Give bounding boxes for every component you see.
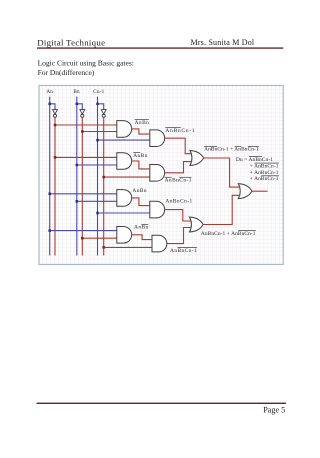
svg-text:AnBnCn-1 + AnBnCn-1: AnBnCn-1 + AnBnCn-1 [201,231,256,237]
wire Bn branch to inverter [77,104,83,110]
wire An rail (direct) [49,97,51,256]
svg-text:AnBnCn-1: AnBnCn-1 [165,128,195,134]
AND gate U7 AnB'n [117,227,132,244]
svg-text:Dn = AnBnCn-1: Dn = AnBnCn-1 [236,157,273,163]
wire AND4 output to OR1 bottom input [165,162,193,173]
svg-text:AnBn: AnBn [134,225,149,231]
wire Cn-1 to AND6 bottom input [98,212,150,214]
junction Cn-1 branch [96,103,99,106]
svg-text:AnBn: AnBn [132,188,147,194]
NOT gate Bn inverter [80,110,85,118]
wire AND8 output to OR2 bottom input [167,228,192,244]
junction Cn-1 feed 1 [96,139,99,142]
junction An feed 2 [48,229,51,232]
wire A'n to AND3 top input [55,156,117,158]
wire B'n to AND1 bottom input [82,131,117,133]
junction B'n feed 1 [81,130,84,133]
wire C'n-1 rail (inverted) [103,118,105,256]
wire A'n rail (inverted) [54,118,56,256]
svg-text:An: An [46,89,53,95]
junction B'n feed 2 [81,237,84,240]
NOT gate Cn-1 inverter [101,110,106,118]
svg-text:Bn: Bn [73,89,80,95]
circuit bounding box with grid [39,86,283,265]
AND gate U1 A'nB'n [117,121,132,138]
wire Bn to AND3 bottom input [77,164,117,166]
svg-text:AnBn: AnBn [133,153,148,159]
AND gate U2 A'nB'nCn-1 [150,130,165,147]
OR gate U10 second OR [190,217,204,232]
svg-text:AnBnCn-1: AnBnCn-1 [170,248,197,254]
wire AND6 output to OR2 top input [165,210,192,221]
wire B'n rail (inverted) [81,118,83,256]
wire An to AND5 top input [50,193,117,195]
junction Bn feed 1 [76,164,79,167]
junction Bn branch [76,103,79,106]
wire Bn rail (direct) [76,97,78,256]
wire Bn to AND5 bottom input [77,200,117,202]
svg-text:+ AnBnCn-1: + AnBnCn-1 [250,176,279,182]
svg-text:AnBnCn-1: AnBnCn-1 [165,178,192,184]
wire C'n-1 to AND8 bottom input [104,246,152,248]
junction An branch [48,103,51,106]
wire Cn-1 to AND2 bottom input [98,139,150,141]
wire OR3 output Dn [252,190,268,192]
junction A'n feed 1 [54,124,57,127]
wire An branch to inverter [50,104,55,110]
svg-text:AnBnCn-1 + AnBnCn-1: AnBnCn-1 + AnBnCn-1 [204,147,259,153]
wire Cn-1 branch to inverter [98,104,104,110]
wire A'n to AND1 top input [55,124,117,126]
AND gate U4 A'nBnC'n-1 [150,165,165,182]
junction C'n-1 feed 2 [102,246,105,249]
junction A'n feed 2 [54,156,57,159]
AND gate U5 AnBn [117,190,132,207]
svg-text:Digital Technique: Digital Technique [37,38,105,48]
svg-text:For Dn(difference): For Dn(difference) [38,68,95,77]
svg-text:+ AnBnCn-1: + AnBnCn-1 [250,170,279,176]
svg-text:AnBn: AnBn [135,120,150,126]
svg-text:Page 5: Page 5 [263,405,285,414]
OR gate U9 first OR [190,151,204,166]
wire AND1 output to AND2 top input [132,129,150,134]
wire AND7 output to AND8 top input [132,235,152,240]
junction C'n-1 feed 1 [102,176,105,179]
svg-text:Cn-1: Cn-1 [93,89,104,95]
wire B'n to AND7 bottom input [82,237,117,239]
svg-text:+ AnBnCn-1: + AnBnCn-1 [250,163,279,169]
svg-text:Mrs. Sunita M Dol: Mrs. Sunita M Dol [191,38,255,47]
wire C'n-1 to AND4 bottom input [104,176,150,178]
junction Bn feed 2 [76,200,79,203]
wire OR2 output to OR3 bottom input [203,195,240,224]
svg-text:Logic Circuit using Basic gate: Logic Circuit using Basic gates: [38,59,134,68]
wire AND3 output to AND4 top input [132,161,150,169]
header rule [37,47,283,48]
svg-text:AnBnCn-1: AnBnCn-1 [165,198,192,204]
wire AND2 output to OR1 top input [165,138,193,154]
AND gate U6 AnBnCn-1 [150,201,165,218]
AND gate U8 AnB'nC'n-1 [152,235,167,252]
NOT gate An inverter [53,110,58,118]
wire Cn-1 rail (direct) [97,97,99,256]
junction Cn-1 feed 2 [96,212,99,215]
wire OR1 output to OR3 top input [204,158,241,187]
wire An to AND7 top input [50,230,117,232]
wire AND5 output to AND6 top input [132,198,150,206]
junction An feed 1 [48,193,51,196]
OR gate U11 output OR [238,184,252,199]
footer rule [37,403,287,404]
AND gate U3 A'nBn [117,153,132,170]
